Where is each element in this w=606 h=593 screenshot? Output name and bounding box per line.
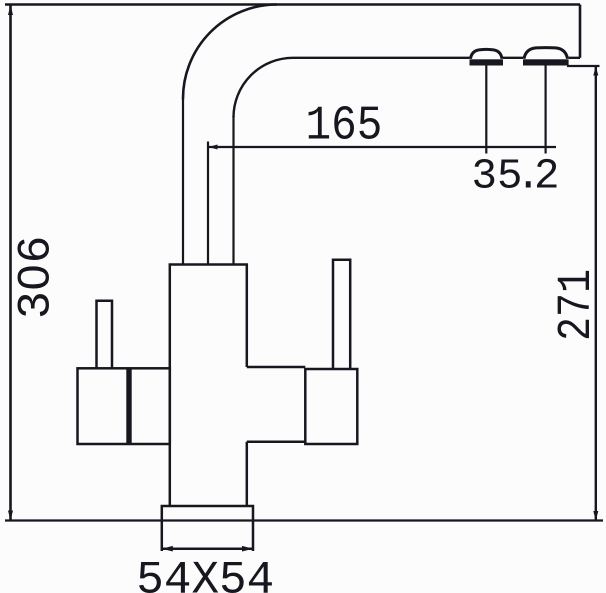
arrow 271 top — [593, 66, 598, 76]
dimension line 271 vertical right — [595, 66, 597, 521]
outlet cap 2 base bar — [523, 59, 569, 65]
spout bottom edge — [293, 57, 580, 59]
spout top edge with 306 extension line — [5, 3, 580, 6]
extension line outlet 2 — [544, 66, 546, 154]
outlet cap 2 dome — [524, 48, 568, 59]
outlet cap 1 base bar — [470, 59, 504, 65]
arrow 165 left — [209, 145, 218, 150]
right arm top edge — [247, 366, 305, 369]
left lever — [97, 301, 113, 369]
svg-text:165: 165 — [305, 98, 382, 153]
arrow 306 bottom — [8, 511, 13, 521]
left handle divider (thick) — [126, 368, 131, 444]
spout outer curve — [183, 4, 277, 99]
extension line outlet 1 — [485, 66, 487, 154]
riser centerline extension — [207, 142, 209, 265]
outlet cap 1 dome — [471, 49, 503, 58]
dimension line 165 — [208, 146, 556, 148]
base flange — [162, 506, 253, 551]
arrow 54x54 left — [162, 546, 173, 552]
riser left edge — [182, 100, 184, 265]
spout right end — [579, 5, 582, 58]
right arm bottom edge — [247, 441, 305, 444]
left handle band (arm + handle base) — [78, 368, 170, 444]
right lever — [333, 260, 350, 369]
arrow 54x54 right — [242, 546, 253, 552]
svg-text:271: 271 — [550, 269, 604, 341]
mask dot inside zero of 306 — [28, 272, 37, 282]
arrow 306 top — [8, 5, 13, 15]
svg-text:54X54: 54X54 — [136, 555, 274, 593]
counter line — [5, 519, 603, 521]
svg-text:35.2: 35.2 — [472, 152, 560, 200]
riser right edge — [232, 116, 234, 265]
right handle base — [305, 369, 357, 444]
dimension line 306 vertical left — [9, 5, 12, 521]
arrow 271 bottom — [593, 511, 598, 521]
spout inner curve — [234, 58, 294, 118]
faucet body — [170, 265, 247, 507]
extension line right horizontal — [567, 65, 600, 67]
